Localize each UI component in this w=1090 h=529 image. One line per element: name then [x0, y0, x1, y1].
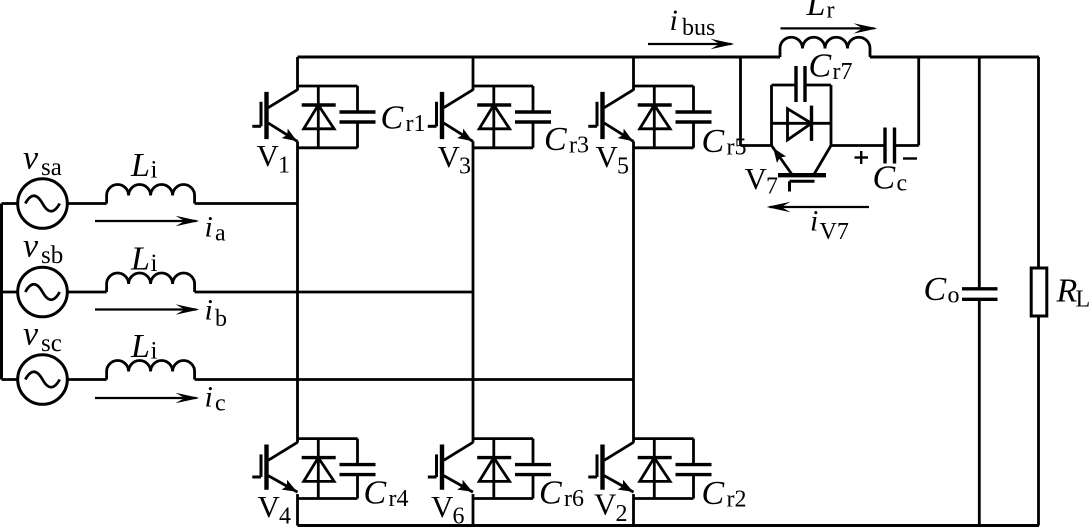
transistor V1 (IGBT) — [264, 92, 268, 139]
wire: inductor to bridge leg (phase a) — [195, 202, 298, 205]
svg-text:o: o — [948, 283, 960, 309]
wire: V4 cell top rail — [298, 437, 358, 440]
svg-text:r2: r2 — [727, 487, 747, 513]
svg-text:3: 3 — [459, 154, 471, 180]
wire: V6 cell top rail — [473, 437, 533, 440]
svg-text:r1: r1 — [406, 111, 426, 137]
wire: inductor to bridge leg (phase b) — [195, 291, 473, 294]
svg-text:sc: sc — [41, 330, 62, 357]
wire: bottom DC bus — [298, 524, 1040, 527]
capacitor C_r2 — [676, 463, 712, 466]
diode (antiparallel with V5) — [653, 86, 656, 148]
inductor L_r — [780, 37, 870, 57]
wire: clamp branch left vertical (bus to V7 emitter node) — [739, 57, 742, 146]
wire: V5 cell top rail — [634, 85, 694, 88]
current arrow i_V7 — [770, 206, 870, 208]
capacitor C_r1 — [340, 110, 376, 113]
current arrow i_b — [95, 308, 197, 310]
resistor R_L — [1031, 268, 1047, 316]
capacitor C_r6 — [515, 463, 551, 466]
wire: top DC bus (left section) — [298, 56, 781, 59]
wire: neutral bus joining the three sources — [0, 204, 3, 380]
svg-text:V: V — [257, 138, 280, 173]
wire: V1 cell top rail — [298, 85, 358, 88]
svg-text:i: i — [670, 4, 678, 37]
svg-text:r7: r7 — [833, 59, 853, 85]
transistor V3 (IGBT) — [440, 92, 444, 139]
svg-text:i: i — [151, 338, 158, 365]
svg-text:v: v — [23, 140, 39, 177]
svg-text:r6: r6 — [564, 486, 584, 512]
label + (C_c polarity) — [855, 156, 869, 158]
capacitor C_r5 — [676, 110, 712, 113]
wire: V5 cell right side (capacitor branch) — [692, 86, 695, 112]
wire: V3 cell top rail — [473, 85, 533, 88]
svg-text:L: L — [130, 328, 150, 365]
svg-text:L: L — [130, 241, 150, 278]
wire: clamp inner box top-right segment — [805, 84, 831, 87]
svg-text:5: 5 — [617, 154, 629, 180]
wire: leg 3 mid vertical (V5 emitter to V2 collector) — [632, 141, 635, 442]
wire: clamp inner box top-left segment — [772, 84, 797, 87]
svg-text:4: 4 — [279, 504, 291, 529]
diode (antiparallel with V4) — [317, 439, 320, 499]
current arrow i_bus — [648, 43, 732, 45]
wire: V7 emitter node horizontal — [741, 144, 772, 147]
wire: inductor to bridge leg (phase c) — [195, 378, 634, 381]
wire: leg 2 mid vertical (V3 emitter to V6 collector) — [472, 141, 475, 442]
svg-text:i: i — [205, 381, 213, 414]
svg-text:V7: V7 — [820, 219, 849, 245]
svg-text:C: C — [544, 121, 567, 158]
wire: leg 1 mid vertical (V1 emitter to V4 collector) — [296, 141, 299, 442]
wire: leg 3 bottom stub (V2 emitter to bottom bus) — [632, 494, 635, 525]
diode (antiparallel with V3) — [492, 86, 495, 148]
wire: R_L branch lower vertical — [1037, 316, 1040, 526]
wire: clamp branch right vertical (to bus after L_r) — [917, 57, 920, 146]
wire: top DC bus (right section) — [870, 56, 1039, 59]
wire: V1 cell right side (capacitor branch) — [356, 86, 359, 112]
wire: V6 cell right side (capacitor branch) — [532, 439, 535, 465]
svg-text:r: r — [827, 0, 835, 24]
current arrow i_a — [95, 220, 197, 222]
svg-text:C: C — [809, 48, 832, 85]
svg-text:i: i — [151, 250, 158, 277]
current arrow i_c — [95, 397, 197, 399]
svg-text:r5: r5 — [727, 135, 747, 161]
svg-text:r4: r4 — [389, 486, 409, 512]
svg-text:b: b — [215, 306, 227, 332]
capacitor C_r7 — [794, 66, 797, 102]
wire: V6 cell bottom rail — [473, 497, 533, 500]
wire: V4 cell right side (capacitor branch) — [356, 439, 359, 465]
label - (C_c polarity) — [903, 157, 917, 159]
wire: leg 1 top stub (bus to V1) — [296, 57, 299, 90]
capacitor C_c — [883, 128, 886, 164]
wire: C_c to clamp right vertical — [895, 144, 919, 147]
svg-text:r3: r3 — [569, 133, 589, 159]
wire: clamp inner box left side — [770, 85, 773, 146]
wire: C_o branch lower vertical — [978, 299, 981, 525]
transistor V6 (IGBT) — [440, 445, 444, 490]
wire: source to inductor (phase c) — [67, 378, 107, 381]
svg-text:L: L — [130, 147, 150, 184]
svg-text:7: 7 — [766, 174, 778, 200]
wire: R_L branch upper vertical — [1037, 57, 1040, 268]
inductor L_i (phase c) — [107, 360, 195, 379]
svg-text:6: 6 — [453, 504, 465, 529]
wire: source to inductor (phase b) — [67, 291, 107, 294]
svg-text:C: C — [364, 475, 387, 512]
inductor L_i (phase b) — [107, 273, 195, 292]
svg-text:sa: sa — [41, 154, 62, 181]
wire: C_o branch upper vertical — [978, 57, 981, 289]
svg-text:V: V — [594, 487, 617, 522]
svg-text:C: C — [539, 475, 562, 512]
svg-text:i: i — [205, 294, 213, 327]
inductor L_i (phase a) — [107, 184, 195, 203]
wire: V1 cell bottom rail — [298, 146, 358, 149]
capacitor C_r3 — [515, 110, 551, 113]
svg-text:C: C — [702, 123, 725, 160]
svg-text:V: V — [438, 139, 461, 174]
current arrow above L_r — [781, 27, 875, 29]
transistor V2 (IGBT) — [600, 445, 604, 490]
wire: V7 collector node horizontal — [831, 144, 885, 147]
svg-text:i: i — [205, 211, 213, 244]
ac source v_sb (phase b) — [2, 291, 19, 294]
transistor V7 (IGBT, clamp switch) — [778, 173, 826, 177]
svg-text:c: c — [215, 391, 226, 417]
svg-text:sb: sb — [41, 242, 63, 269]
diode (antiparallel with V2) — [653, 439, 656, 499]
wire: V4 cell bottom rail — [298, 497, 358, 500]
svg-text:1: 1 — [278, 153, 290, 179]
ac source v_sa (phase a) — [2, 202, 19, 205]
wire: leg 3 top stub (bus to V5) — [632, 57, 635, 90]
svg-text:a: a — [215, 221, 226, 247]
svg-text:C: C — [924, 271, 947, 308]
svg-text:L: L — [1076, 287, 1090, 313]
svg-text:L: L — [806, 0, 826, 23]
svg-text:V: V — [258, 489, 281, 524]
wire: V5 cell bottom rail — [634, 146, 694, 149]
svg-text:i: i — [151, 157, 158, 184]
capacitor C_r4 — [340, 463, 376, 466]
svg-text:C: C — [702, 475, 725, 512]
diode (antiparallel with V7) — [772, 122, 832, 125]
wire: V2 cell top rail — [634, 437, 694, 440]
wire: V3 cell bottom rail — [473, 146, 533, 149]
wire: source to inductor (phase a) — [67, 202, 107, 205]
svg-text:2: 2 — [616, 501, 628, 527]
wire: V2 cell bottom rail — [634, 497, 694, 500]
transistor V5 (IGBT) — [600, 92, 604, 139]
wire: clamp inner box right side — [830, 85, 833, 146]
wire: leg 2 top stub (bus to V3) — [472, 57, 475, 90]
svg-text:i: i — [810, 205, 818, 238]
ac source v_sc (phase c) — [2, 378, 19, 381]
wire: leg 2 bottom stub (V6 emitter to bottom bus) — [472, 494, 475, 525]
svg-text:v: v — [23, 228, 39, 265]
svg-text:V: V — [596, 139, 619, 174]
svg-text:c: c — [897, 171, 908, 197]
svg-text:bus: bus — [682, 15, 715, 41]
svg-text:v: v — [23, 316, 39, 353]
wire: V3 cell right side (capacitor branch) — [532, 86, 535, 112]
transistor V4 (IGBT) — [264, 445, 268, 490]
svg-text:V: V — [745, 161, 768, 196]
wire: V2 cell right side (capacitor branch) — [692, 439, 695, 465]
svg-text:C: C — [873, 160, 896, 197]
diode (antiparallel with V1) — [317, 86, 320, 148]
wire: leg 1 bottom stub (V4 emitter to bottom bus) — [296, 494, 299, 525]
svg-text:R: R — [1056, 273, 1078, 310]
svg-text:V: V — [431, 489, 454, 524]
capacitor C_o — [962, 287, 998, 290]
diode (antiparallel with V6) — [492, 439, 495, 499]
svg-text:C: C — [381, 100, 404, 137]
